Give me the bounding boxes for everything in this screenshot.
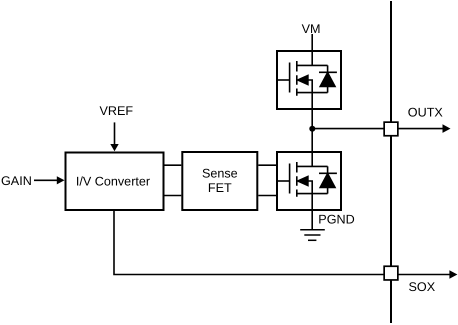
wire VREF arrow into I/V converter	[114, 122, 116, 145]
block U2 Sense FET	[182, 152, 257, 210]
wire Q1 source to Q2 drain	[311, 109, 313, 152]
drain stub	[297, 51, 328, 65]
svg-text:VM: VM	[302, 22, 321, 36]
gate lead	[277, 180, 290, 182]
block U1 I/V Converter	[66, 153, 164, 211]
transistor Q1 high-side FET	[277, 51, 341, 109]
svg-text:OUTX: OUTX	[408, 106, 444, 120]
svg-text:VREF: VREF	[100, 104, 134, 118]
arrowhead VREF	[110, 144, 118, 151]
svg-text:GAIN: GAIN	[1, 174, 32, 188]
svg-text:FET: FET	[208, 181, 232, 195]
transistor Q2 low-side FET	[277, 152, 341, 210]
node SOX pin square	[384, 266, 398, 280]
wire bus (vertical OUTX bus line at right)	[390, 1, 392, 323]
svg-text:SOX: SOX	[409, 280, 436, 294]
node OUTX pin square	[384, 122, 398, 136]
body diode	[319, 166, 337, 193]
source stub	[297, 194, 328, 210]
drain stub	[297, 152, 328, 166]
junction OUTX node dot	[309, 126, 315, 132]
wire VM lead	[311, 34, 313, 51]
channel dashes	[296, 61, 298, 96]
arrowhead GAIN	[57, 176, 65, 184]
body diode	[319, 65, 337, 92]
gate bar	[289, 63, 291, 93]
wire Sense FET to Q2 upper	[258, 164, 277, 166]
ground PGND symbol	[300, 230, 325, 241]
svg-text:Sense: Sense	[202, 166, 238, 180]
arrowhead SOX	[449, 270, 457, 279]
wire SOX from I/V converter	[114, 210, 450, 275]
svg-text:PGND: PGND	[318, 213, 354, 227]
wire I/V to Sense FET lower	[165, 195, 182, 197]
wire GAIN arrow into I/V converter	[34, 179, 58, 181]
gate bar	[289, 164, 291, 194]
body arrow	[298, 177, 308, 186]
svg-text:I/V Converter: I/V Converter	[76, 174, 150, 188]
wire OUTX	[312, 128, 443, 130]
body tie	[308, 181, 312, 194]
body arrow	[298, 76, 308, 85]
source stub	[297, 93, 328, 109]
arrowhead OUTX	[443, 124, 451, 133]
wire Sense FET to Q2 lower	[258, 195, 277, 197]
channel dashes	[296, 162, 298, 197]
wire I/V to Sense FET upper	[165, 164, 182, 166]
gate lead	[277, 79, 290, 81]
wire Q2 source to ground	[311, 210, 313, 230]
body tie	[308, 80, 312, 93]
